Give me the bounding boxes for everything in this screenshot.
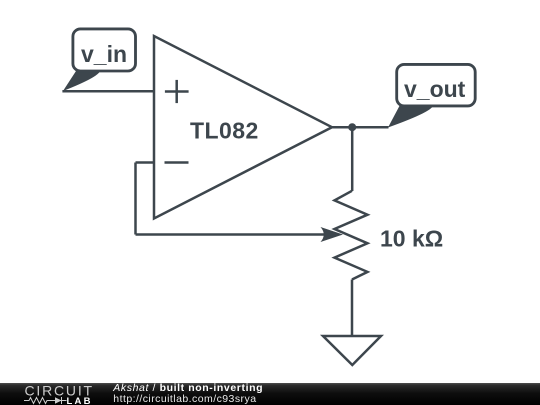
wire: potentiometer to ground [351,280,354,337]
svg-text:v_out: v_out [404,76,466,102]
potentiometer wiper arrowhead [321,227,344,242]
op-amp U1 TL082 triangle body [154,36,332,219]
svg-text:10 kΩ: 10 kΩ [380,226,443,252]
CircuitLab logo schematic doodle [24,397,67,404]
logo diode [55,397,62,403]
svg-text:http://circuitlab.com/c93srya: http://circuitlab.com/c93srya [113,393,256,405]
wire: feedback vertical segment [134,163,137,235]
svg-text:LAB: LAB [67,396,93,405]
ground symbol [323,336,381,365]
op-amp minus input marker [165,161,189,164]
svg-text:TL082: TL082 [190,118,259,144]
svg-text:Akshat / built non-inverting: Akshat / built non-inverting [112,382,263,394]
op-amp plus input marker [165,80,189,103]
node junction dot [348,123,356,131]
svg-text:v_in: v_in [81,41,127,67]
flag label v_out [388,64,475,127]
flag label v_in [63,29,136,91]
wire: feedback horizontal segment to wiper [136,233,329,236]
wire: inverting input stub [136,161,155,164]
wire: v_in to op-amp non-inverting input [62,90,154,93]
potentiometer R1 zigzag body [335,191,368,280]
wire: node down to potentiometer [351,127,354,191]
wire: op-amp output [332,126,389,129]
